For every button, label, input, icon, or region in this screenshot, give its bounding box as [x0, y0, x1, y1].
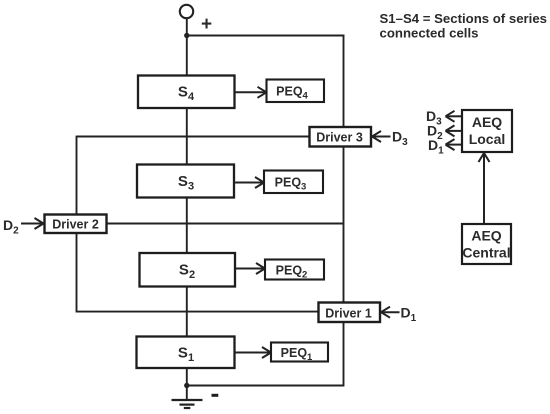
wire: AEQ Local output D3 arrow — [446, 111, 462, 122]
driver Driver 2 — [45, 215, 107, 234]
wire: left rail upper (down to Driver 2) — [76, 136, 78, 215]
note: S1-S4 legend — [380, 11, 548, 41]
driver Driver 3 — [310, 127, 372, 147]
wire: left rail lower (Driver 2 down) — [76, 232, 78, 312]
equalizer PEQ1 — [271, 343, 328, 364]
wire: right bus upper segment (+ rail to Driver 3) — [343, 35, 345, 128]
wire: left rail to Driver 1 — [76, 311, 319, 313]
svg-text:Driver 1: Driver 1 — [325, 307, 372, 321]
wire: main bus S2 to S1 — [186, 286, 188, 337]
wire: bottom rail to right bus — [187, 385, 345, 387]
wire: main bus S3 to S2 — [186, 198, 188, 254]
wire: S1 to PEQ1 arrow — [235, 347, 272, 358]
wire: terminal stem down to S4 — [186, 18, 188, 76]
wire: S4 to PEQ4 arrow — [235, 87, 267, 98]
equalizer PEQ4 — [267, 80, 325, 103]
wire: S2 to PEQ2 arrow — [235, 263, 265, 274]
wire: AEQ Local output D2 arrow — [446, 125, 462, 136]
svg-text:Local: Local — [469, 131, 506, 147]
section S1 — [137, 337, 235, 369]
svg-text:S1–S4 = Sections of series: S1–S4 = Sections of series — [380, 11, 548, 26]
wire: Driver 3 left net (to left rail) — [77, 136, 310, 138]
block AEQ Local U-local — [462, 110, 512, 152]
ground — [172, 400, 203, 408]
svg-text:connected cells: connected cells — [380, 26, 479, 41]
svg-text:AEQ: AEQ — [471, 228, 501, 244]
equalizer PEQ2 — [265, 260, 324, 281]
equalizer PEQ3 — [264, 171, 323, 194]
wire: main bus S1 to ground — [186, 367, 188, 400]
wire: D3 input arrow to Driver 3 — [372, 131, 391, 142]
wire: AEQ Central to AEQ Local arrow — [479, 153, 490, 225]
junction dot at + rail — [184, 33, 189, 38]
label - (negative) — [212, 394, 219, 397]
svg-text:Driver 2: Driver 2 — [52, 218, 99, 232]
svg-text:Central: Central — [462, 245, 510, 261]
wire: right bus middle segment (Driver 3 to Driver 1) — [343, 146, 345, 304]
block AEQ Central — [462, 224, 511, 264]
driver Driver 1 — [319, 303, 381, 323]
wire: + rail from bus to right bus — [187, 35, 345, 37]
wire: right bus lower segment (Driver 1 to bottom rail) — [343, 321, 345, 386]
wire: S3 to PEQ3 arrow — [234, 177, 264, 188]
section S3 — [137, 165, 234, 198]
wire: main bus S4 to S3 — [186, 108, 188, 166]
svg-text:Driver 3: Driver 3 — [316, 131, 363, 145]
section S2 — [140, 253, 236, 287]
wire: AEQ Local output D1 arrow — [446, 139, 462, 150]
positive terminal circle — [180, 5, 193, 18]
junction dot at bottom rail — [184, 383, 189, 388]
section S4 — [138, 76, 235, 109]
wire: D2 input arrow to Driver 2 — [21, 218, 44, 229]
wire: Driver 2 output to right bus — [107, 223, 344, 225]
svg-text:+: + — [201, 14, 212, 35]
svg-text:AEQ: AEQ — [472, 114, 502, 130]
wire: D1 input arrow to Driver 1 — [381, 307, 400, 318]
